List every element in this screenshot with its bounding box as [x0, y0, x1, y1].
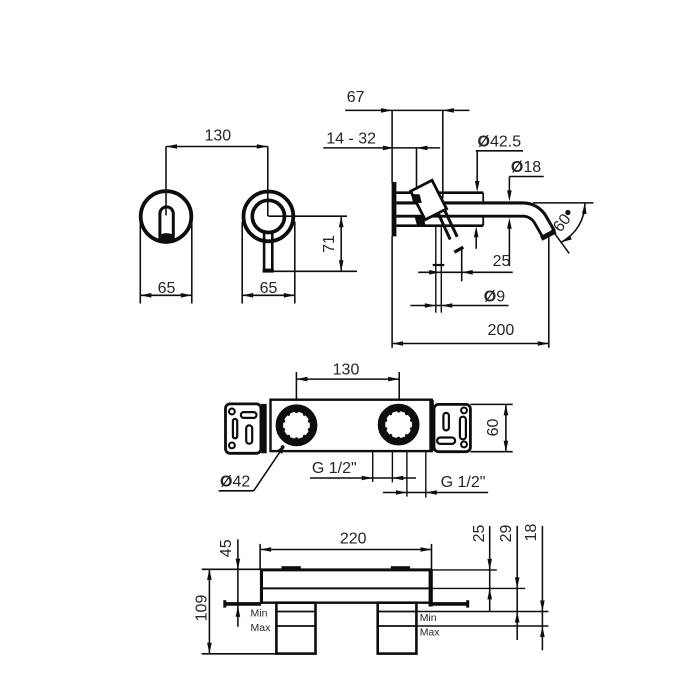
wall line below flange — [391, 236, 393, 347]
body slab mid line — [261, 587, 525, 589]
svg-text:200: 200 — [488, 322, 515, 339]
lever stick lines — [438, 211, 457, 240]
svg-text:Ø42.5: Ø42.5 — [478, 133, 522, 150]
svg-text:60: 60 — [485, 419, 502, 437]
spout front outline (U shape) — [160, 207, 173, 237]
dimension diameter 9 — [410, 288, 508, 308]
left supply leg — [276, 603, 315, 654]
svg-text:65: 65 — [260, 280, 278, 297]
left cartridge knurled ring — [279, 408, 313, 442]
handle knob (tilted square) — [411, 180, 447, 219]
dimension G 1/2 right connection — [383, 474, 488, 495]
svg-text:G 1/2": G 1/2" — [441, 474, 486, 491]
mixer bar body rectangle — [271, 400, 432, 451]
svg-text:G 1/2": G 1/2" — [312, 460, 357, 477]
dimension 18 min to max — [523, 524, 545, 651]
left end cap (filled bar) — [261, 404, 267, 453]
svg-text:29: 29 — [498, 525, 515, 543]
right mounting bracket — [434, 404, 470, 451]
svg-text:109: 109 — [194, 595, 211, 622]
extension line handle tip — [442, 110, 444, 198]
svg-text:18: 18 — [523, 524, 540, 542]
right supply leg — [378, 603, 417, 654]
diameter 18 lower arrow — [507, 218, 512, 266]
left escutcheon circle — [141, 191, 192, 242]
Min Max labels left leg — [251, 608, 272, 634]
svg-text:Ø42: Ø42 — [220, 473, 250, 490]
right bracket slots — [437, 413, 466, 444]
spout tip face (thick) — [541, 231, 555, 239]
right escutcheon outer circle — [244, 192, 294, 242]
svg-text:Min: Min — [251, 608, 268, 620]
diameter 42 label with leader — [219, 445, 285, 491]
svg-text:Ø18: Ø18 — [511, 159, 541, 176]
view C: back view - dimension 130 between cartridges — [296, 361, 399, 404]
right end cap (filled bar) — [429, 400, 434, 451]
handle ring inner circle — [252, 200, 284, 232]
slab left edge (thick) — [260, 570, 263, 604]
right bracket screw holes — [461, 408, 467, 448]
handle lever bar — [263, 233, 274, 273]
dimension 130 between trim centers — [166, 128, 268, 149]
mixer body bottom line — [396, 224, 483, 227]
svg-text:Max: Max — [251, 622, 272, 634]
right wall wing — [432, 600, 469, 607]
view B: side view - dimension 67 handle protrusion — [345, 89, 469, 113]
dimension 60 bracket height — [470, 404, 512, 451]
extension line handle back — [416, 148, 418, 193]
dimension 200 spout reach — [392, 322, 549, 346]
left mounting bracket — [226, 404, 261, 453]
dimension G 1/2 left connection — [310, 460, 416, 481]
spout tube bottom outline with bend — [396, 216, 542, 236]
wall flange (filled bar) — [392, 182, 397, 236]
svg-text:14 - 32: 14 - 32 — [326, 130, 376, 147]
diameter 42.5 label and leader — [475, 133, 523, 192]
diameter 18 label and leader — [507, 159, 544, 202]
body slab top line — [260, 568, 497, 571]
centerline right escutcheon — [267, 147, 269, 217]
handle neck upper (filled) — [411, 194, 422, 203]
svg-text:130: 130 — [204, 128, 231, 145]
slab right edge (thick) — [429, 570, 433, 607]
body slab bottom line — [261, 602, 431, 604]
svg-text:Ø9: Ø9 — [484, 288, 505, 305]
dimension 29 mid to min — [498, 525, 520, 641]
centerline left escutcheon — [165, 147, 167, 216]
svg-text:65: 65 — [158, 280, 176, 297]
spout tube top outline with bend — [396, 203, 554, 231]
handle neck lower (filled) — [415, 216, 426, 226]
svg-text:220: 220 — [340, 531, 367, 548]
svg-text:45: 45 — [218, 539, 235, 557]
dimension 45 wall offset — [218, 539, 240, 627]
svg-text:Max: Max — [420, 626, 441, 638]
spout mouth (filled) — [158, 233, 175, 244]
svg-text:67: 67 — [347, 89, 365, 106]
supply pipe lines (diameter 9) — [433, 226, 445, 313]
dimension 109 total depth — [194, 569, 277, 654]
oblique tick at extension line — [454, 247, 463, 252]
svg-text:71: 71 — [321, 235, 338, 253]
diameter 42.5 lower arrow — [474, 226, 479, 249]
left bracket slots — [233, 412, 257, 444]
dimension 25 depth to mid line — [471, 525, 492, 612]
dimension 14 - 32 adjustment — [323, 130, 440, 150]
view D: installation side view - dimension 220 body length — [260, 531, 431, 570]
fixing tabs on top — [282, 566, 411, 570]
svg-text:25: 25 — [471, 525, 488, 543]
left wall wing — [223, 600, 261, 607]
dimension 25 outlet offset — [418, 253, 513, 274]
mixer body end edges — [482, 193, 484, 226]
svg-text:130: 130 — [333, 361, 360, 378]
wall line above flange — [391, 110, 393, 182]
60 degree angle annotation — [533, 203, 594, 254]
svg-text:25: 25 — [493, 253, 511, 270]
svg-text:Min: Min — [420, 612, 437, 624]
left bracket screw holes — [229, 409, 235, 449]
dimension 65 right — [242, 222, 295, 304]
extension line spout tip — [548, 238, 550, 348]
dimension 65 left — [140, 222, 192, 304]
Min Max lines and labels right leg — [416, 612, 548, 639]
dimension 71 lever drop — [268, 216, 357, 271]
G half inch connection extension lines — [373, 451, 426, 498]
extension line 25 offset — [461, 248, 463, 281]
right cartridge knurled ring — [381, 407, 415, 441]
mixer body top line — [396, 191, 483, 194]
